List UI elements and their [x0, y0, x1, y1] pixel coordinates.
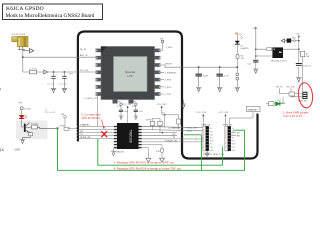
- svg-text:4: 4: [0, 87, 2, 92]
- svg-text:1_WUP: 1_WUP: [166, 47, 174, 49]
- svg-text:100nF: 100nF: [203, 76, 209, 78]
- svg-text:Mods to MicroElektronica GNSS2: Mods to MicroElektronica GNSS2 Board: [6, 13, 95, 19]
- svg-text:TXB0108: TXB0108: [129, 129, 133, 143]
- svg-text:L76: L76: [127, 74, 132, 78]
- svg-text:1_CMOS_OUT: 1_CMOS_OUT: [84, 98, 99, 100]
- svg-text:RST: RST: [210, 147, 213, 149]
- svg-text:D2: D2: [240, 45, 243, 47]
- svg-text:WT_5V: WT_5V: [276, 87, 283, 89]
- svg-text:C6 .1uF: C6 .1uF: [47, 83, 55, 85]
- svg-text:AN: AN: [210, 143, 213, 146]
- svg-text:SDA: SDA: [210, 140, 214, 143]
- svg-text:RX: RX: [237, 136, 241, 138]
- svg-text:K6JCA GPSDO: K6JCA GPSDO: [6, 6, 44, 12]
- svg-text:x: x: [196, 140, 197, 142]
- svg-text:.1uF: .1uF: [139, 111, 144, 113]
- svg-text:1_TXD: 1_TXD: [165, 94, 172, 96]
- svg-text:WUP: WUP: [232, 144, 236, 146]
- svg-text:PORCL_ON: PORCL_ON: [186, 128, 198, 130]
- svg-text:GND: GND: [15, 149, 21, 152]
- svg-text:MIC5365-3.3YC5: MIC5365-3.3YC5: [271, 60, 287, 62]
- svg-text:1_RX: 1_RX: [78, 131, 84, 133]
- svg-text:1_RXD: 1_RXD: [165, 87, 172, 89]
- svg-text:2. Cut trace from: 2. Cut trace from: [82, 112, 101, 116]
- svg-text:TP5: TP5: [19, 102, 24, 104]
- svg-text:R10: R10: [156, 151, 161, 153]
- svg-text:J4: J4: [0, 148, 4, 153]
- svg-text:10K: 10K: [306, 56, 310, 58]
- svg-text:C13 1uF: C13 1uF: [303, 66, 311, 68]
- svg-text:A1: A1: [210, 127, 212, 130]
- svg-text:GND: GND: [210, 150, 214, 152]
- svg-text:3. Reassign GPS Pin RC3 to rem: 3. Reassign GPS Pin RC3 to remap to "OFF…: [114, 161, 175, 165]
- svg-text:VCC_3.3V: VCC_3.3V: [197, 112, 207, 114]
- svg-text:PPS to LED: PPS to LED: [45, 111, 56, 114]
- svg-text:TXB0108: TXB0108: [116, 152, 125, 154]
- svg-text:GPS ANTENNA: GPS ANTENNA: [11, 33, 26, 36]
- svg-text:L2 27nH: L2 27nH: [29, 68, 37, 70]
- svg-text:1. Move PWR jumper: 1. Move PWR jumper: [283, 110, 309, 114]
- svg-text:LPPS: LPPS: [60, 126, 66, 128]
- svg-text:1_STANDBY: 1_STANDBY: [165, 71, 178, 74]
- svg-text:INT: INT: [232, 138, 235, 140]
- svg-text:4.7uF: 4.7uF: [224, 76, 230, 78]
- svg-text:.1uF: .1uF: [124, 111, 129, 113]
- svg-text:FORCE_ON: FORCE_ON: [166, 140, 178, 142]
- svg-text:R4: R4: [241, 56, 244, 58]
- svg-text:from 3.3V to 5V: from 3.3V to 5V: [284, 114, 303, 118]
- svg-text:(red)PPS: (red)PPS: [240, 48, 249, 50]
- svg-text:VCC2: VCC2: [187, 131, 193, 133]
- svg-text:VCC_RF: VCC_RF: [80, 70, 89, 72]
- svg-text:VC2: VC2: [162, 113, 167, 115]
- svg-text:TP6: TP6: [238, 34, 243, 36]
- svg-text:RF_IN: RF_IN: [80, 49, 87, 51]
- svg-text:C_STANDBY: C_STANDBY: [168, 126, 181, 129]
- svg-text:VBCKP: VBCKP: [165, 63, 173, 65]
- svg-text:RXD: RXD: [210, 131, 214, 133]
- svg-text:4. Reassign GPS Pin RC4 to rem: 4. Reassign GPS Pin RC4 to remap to a ne…: [114, 166, 182, 170]
- svg-text:D5 LED: D5 LED: [24, 109, 32, 111]
- svg-text:GND: GND: [232, 150, 236, 152]
- svg-text:1_PPS/N_2M: 1_PPS/N_2M: [78, 137, 90, 139]
- svg-text:1_STANDBY: 1_STANDBY: [78, 124, 90, 127]
- svg-text:FB1: FB1: [292, 37, 297, 39]
- svg-text:VCC_3.3V: VCC_3.3V: [219, 112, 229, 114]
- svg-text:ANT_IN: ANT_IN: [80, 54, 88, 57]
- svg-text:WT_3.3V: WT_3.3V: [287, 87, 296, 89]
- svg-text:TP3: TP3: [69, 74, 74, 76]
- svg-text:1_TX: 1_TX: [78, 134, 83, 136]
- svg-text:GPS Pin RC3 to: GPS Pin RC3 to: [82, 116, 101, 120]
- svg-text:x: x: [196, 137, 197, 139]
- svg-text:C7 4.7uF: C7 4.7uF: [59, 83, 68, 85]
- svg-text:STANDBY: STANDBY: [248, 108, 259, 111]
- svg-text:R8 R9: R8 R9: [146, 120, 153, 122]
- svg-text:PPS: PPS: [232, 141, 235, 143]
- svg-text:VT3: VT3: [296, 33, 301, 35]
- svg-text:VCC_3.3V: VCC_3.3V: [122, 104, 132, 106]
- svg-text:470: 470: [241, 58, 245, 60]
- svg-text:SCL: SCL: [210, 138, 213, 140]
- svg-text:RST: RST: [232, 147, 235, 149]
- svg-text:R5: R5: [306, 54, 309, 56]
- svg-text:3_PPS: 3_PPS: [165, 80, 172, 82]
- svg-text:TX: TX: [237, 133, 240, 135]
- svg-text:R7 10K: R7 10K: [31, 123, 38, 125]
- svg-text:VCC_3.3V: VCC_3.3V: [157, 104, 167, 106]
- svg-text:TXD: TXD: [210, 134, 214, 136]
- svg-text:C11: C11: [248, 64, 252, 66]
